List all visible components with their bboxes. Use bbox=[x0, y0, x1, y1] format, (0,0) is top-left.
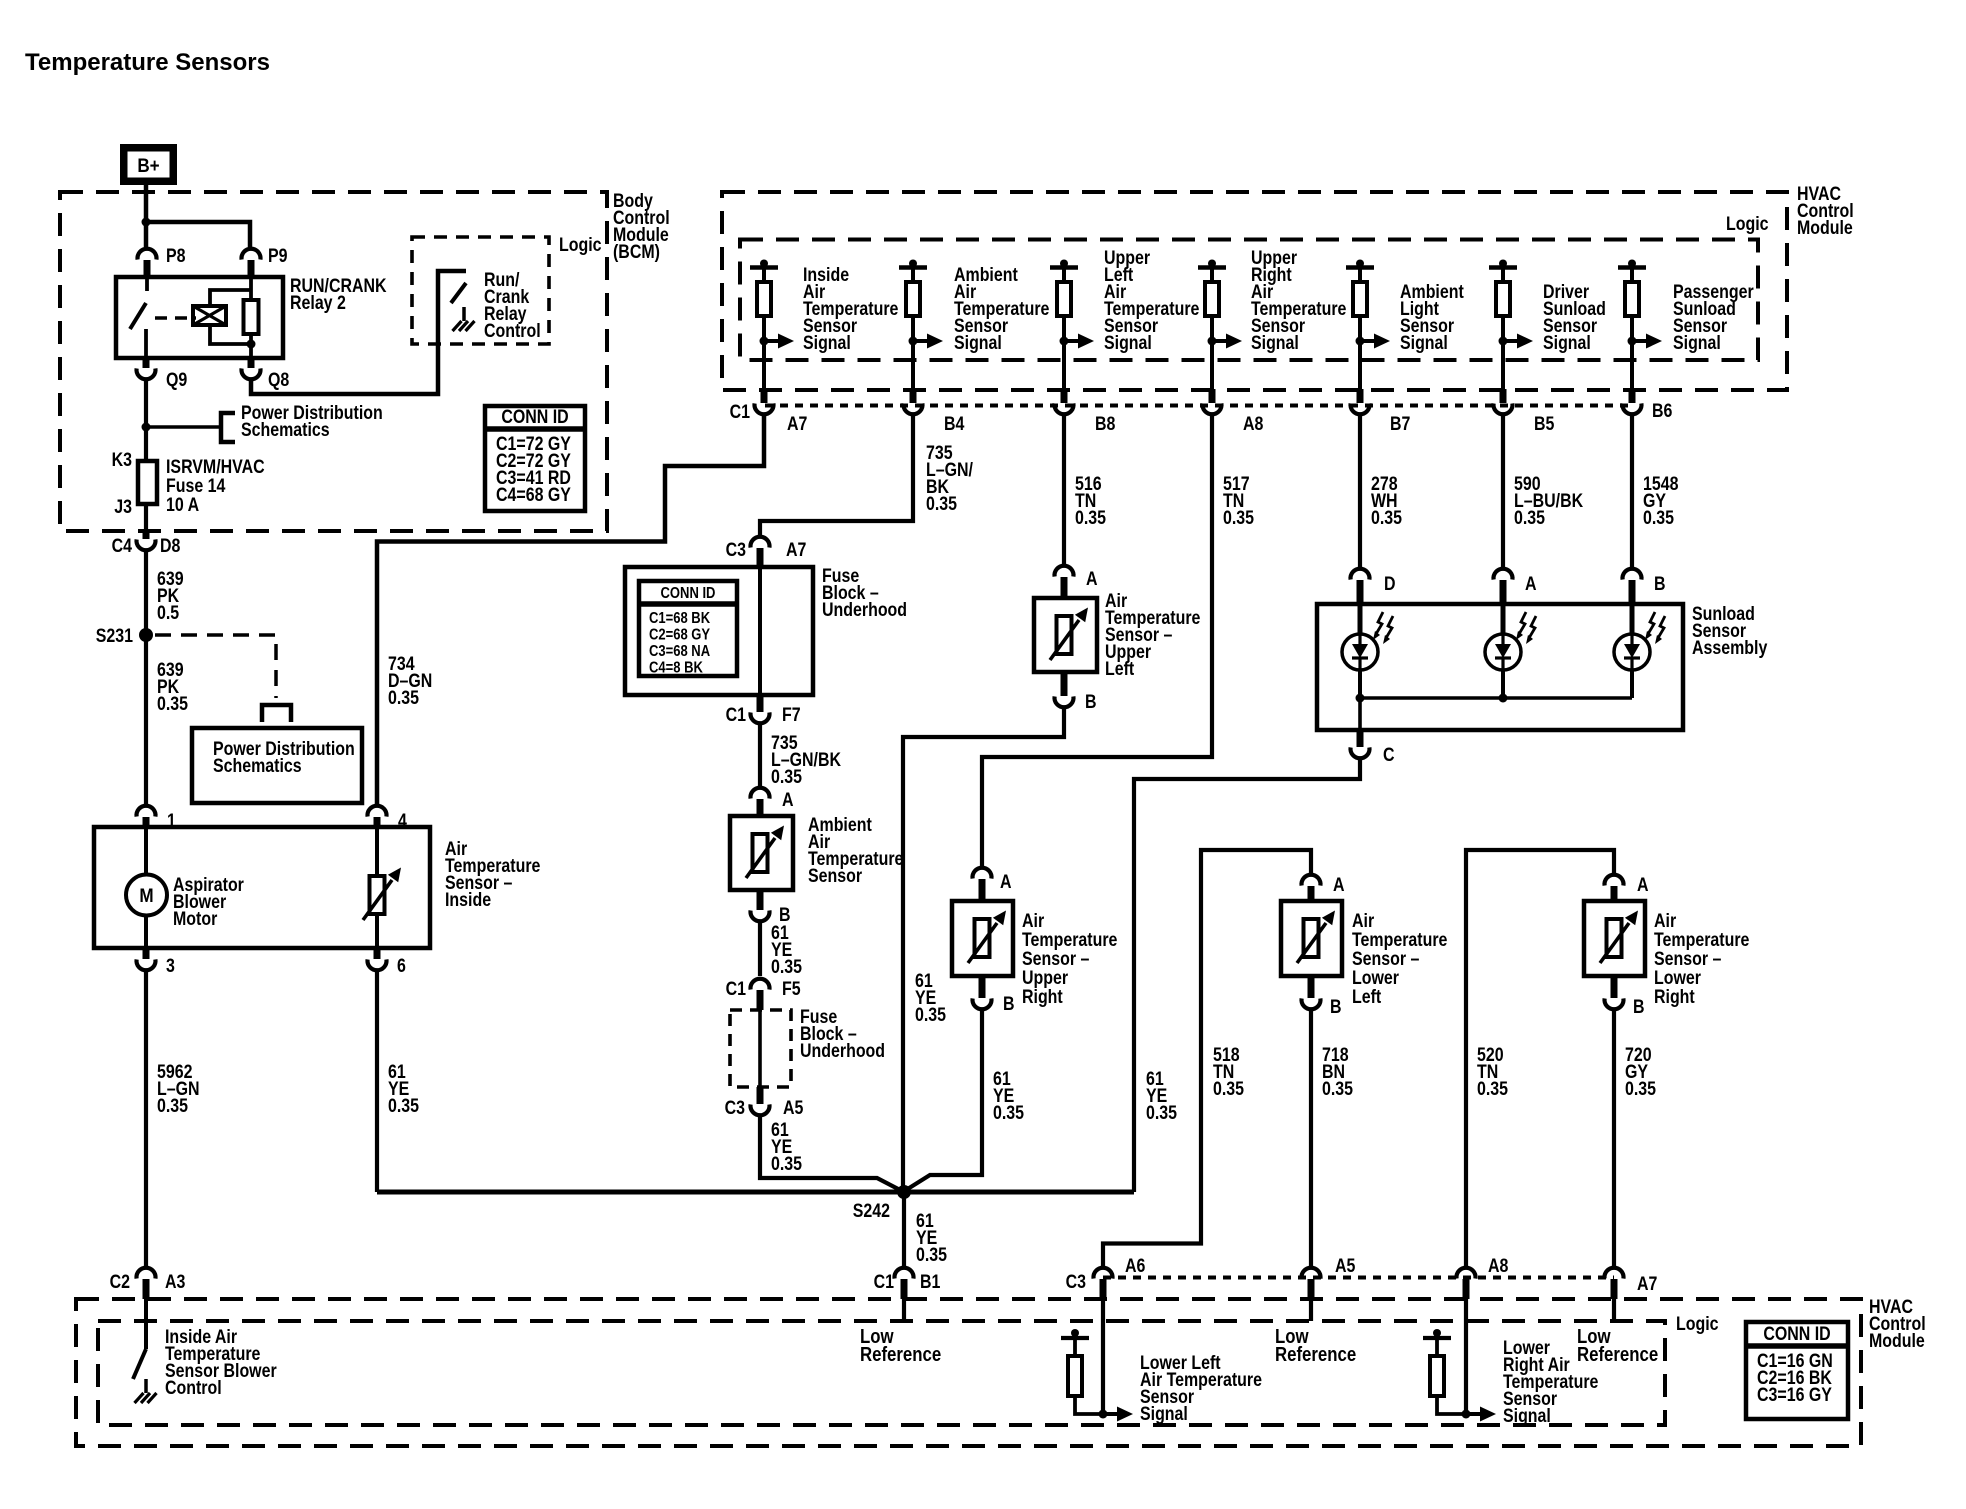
connector A8 (bottom) bbox=[1457, 1268, 1476, 1279]
svg-text:B4: B4 bbox=[944, 413, 965, 435]
connector pin A8 bbox=[1209, 389, 1216, 403]
svg-text:Logic: Logic bbox=[1676, 1313, 1719, 1335]
air temperature sensor upper right box bbox=[952, 901, 1013, 976]
thermistor ambient air temperature sensor bbox=[753, 834, 768, 872]
svg-text:Temperature Sensors: Temperature Sensors bbox=[25, 49, 270, 76]
wire B5 down bbox=[1501, 415, 1505, 568]
air temperature sensor lower left box bbox=[1281, 901, 1342, 976]
HVAC Control Module dashed box (top) bbox=[722, 192, 1787, 390]
wire B1 into module bbox=[902, 1299, 906, 1321]
connector 4 bbox=[368, 806, 387, 817]
svg-text:A7: A7 bbox=[787, 413, 807, 435]
svg-text:Left: Left bbox=[1352, 986, 1381, 1008]
svg-text:Left: Left bbox=[1105, 658, 1134, 680]
svg-text:K3: K3 bbox=[112, 449, 133, 471]
svg-text:C4=8 BK: C4=8 BK bbox=[649, 660, 703, 677]
svg-text:0.35: 0.35 bbox=[1643, 507, 1674, 529]
svg-text:(BCM): (BCM) bbox=[613, 241, 660, 263]
wire through fuse block bbox=[758, 567, 762, 695]
svg-text:0.35: 0.35 bbox=[916, 1244, 947, 1266]
connector dotted line (bottom) bbox=[1103, 1276, 1614, 1280]
wire 3 down to C2/A3 bbox=[144, 971, 148, 1268]
connector A (ambient) bbox=[751, 788, 770, 799]
svg-text:Reference: Reference bbox=[1275, 1343, 1356, 1366]
connector A (sunload) bbox=[1494, 569, 1513, 580]
connector B (upper right) bbox=[979, 976, 986, 998]
node sunload common 1 bbox=[1356, 694, 1365, 703]
connector Q8 bbox=[248, 358, 255, 368]
connector P9 bbox=[242, 249, 261, 260]
svg-text:S231: S231 bbox=[96, 625, 133, 647]
svg-text:A6: A6 bbox=[1125, 1255, 1146, 1277]
svg-text:A: A bbox=[782, 789, 794, 811]
svg-text:0.35: 0.35 bbox=[926, 493, 957, 515]
power distribution schematics box bbox=[192, 728, 362, 803]
wire B upper left to S242 bbox=[903, 708, 1064, 1193]
svg-text:D: D bbox=[1384, 573, 1396, 595]
svg-text:B: B bbox=[1085, 691, 1097, 713]
connector C2 A3 bbox=[137, 1268, 156, 1279]
svg-text:A3: A3 bbox=[165, 1271, 186, 1293]
svg-text:0.35: 0.35 bbox=[1146, 1102, 1177, 1124]
svg-text:Inside: Inside bbox=[445, 889, 491, 911]
svg-text:Schematics: Schematics bbox=[213, 755, 302, 777]
HVAC Logic dashed box (bottom) bbox=[98, 1321, 1665, 1425]
svg-text:A8: A8 bbox=[1243, 413, 1264, 435]
svg-text:D8: D8 bbox=[160, 535, 181, 557]
wire through dashed fuse block bbox=[758, 1010, 762, 1087]
wire S242 bus bbox=[377, 1190, 1134, 1195]
svg-text:J3: J3 bbox=[114, 496, 132, 518]
battery feed B+ terminal bbox=[120, 144, 177, 185]
svg-text:0.35: 0.35 bbox=[1514, 507, 1545, 529]
svg-text:C1: C1 bbox=[730, 401, 751, 423]
switch inside air temperature sensor blower control bbox=[144, 1299, 148, 1349]
arrow ambient air temp signal bbox=[909, 337, 918, 346]
connector C4 D8 bbox=[143, 531, 150, 539]
svg-text:0.35: 0.35 bbox=[771, 956, 802, 978]
sense resistor passenger sunload signal bbox=[1628, 260, 1636, 268]
run/crank control switch blade bbox=[451, 283, 466, 303]
sense resistor ambient air temp signal bbox=[909, 260, 917, 268]
svg-text:F7: F7 bbox=[782, 704, 801, 726]
arrow driver sunload signal bbox=[1499, 337, 1508, 346]
arrow ambient light signal bbox=[1356, 337, 1365, 346]
connector 3 bbox=[143, 948, 150, 959]
svg-text:A5: A5 bbox=[1335, 1255, 1356, 1277]
svg-text:0.35: 0.35 bbox=[388, 687, 419, 709]
connector Q9 bbox=[143, 358, 150, 368]
fuse block underhood dashed box bbox=[730, 1010, 791, 1087]
svg-text:P9: P9 bbox=[268, 245, 288, 267]
svg-text:0.35: 0.35 bbox=[1223, 507, 1254, 529]
wire coil top to P9 leg bbox=[210, 290, 251, 306]
svg-text:Reference: Reference bbox=[860, 1343, 941, 1366]
svg-text:0.35: 0.35 bbox=[157, 1095, 188, 1117]
wire Q9 down bbox=[144, 381, 148, 462]
connector A7 (bottom) bbox=[1605, 1268, 1624, 1279]
svg-text:A: A bbox=[1525, 573, 1537, 595]
svg-text:F5: F5 bbox=[782, 978, 801, 1000]
svg-text:Motor: Motor bbox=[173, 908, 217, 930]
connector P8 bbox=[138, 249, 157, 260]
connector B (ambient) bbox=[757, 890, 764, 910]
svg-text:B5: B5 bbox=[1534, 413, 1555, 435]
pullup resistor lower right signal bbox=[1433, 1329, 1441, 1337]
arrow passenger sunload signal bbox=[1628, 337, 1637, 346]
CONN ID table fuse block bbox=[639, 581, 737, 676]
svg-text:Sensor: Sensor bbox=[808, 865, 862, 887]
connector 6 bbox=[374, 948, 381, 959]
svg-text:0.35: 0.35 bbox=[915, 1004, 946, 1026]
svg-text:B+: B+ bbox=[137, 155, 159, 176]
svg-text:B: B bbox=[1633, 996, 1645, 1018]
svg-text:B1: B1 bbox=[920, 1271, 941, 1293]
svg-text:C3=16 GY: C3=16 GY bbox=[1757, 1384, 1832, 1406]
connector C (sunload) bbox=[1357, 730, 1364, 747]
svg-text:0.35: 0.35 bbox=[1625, 1078, 1656, 1100]
svg-text:A7: A7 bbox=[1637, 1273, 1657, 1295]
wire B6 down bbox=[1630, 415, 1634, 568]
wire A5 into module bbox=[1309, 1299, 1313, 1321]
connector pin B5 bbox=[1500, 389, 1507, 403]
sunload sensor assembly box bbox=[1317, 604, 1683, 730]
svg-text:A5: A5 bbox=[783, 1097, 804, 1119]
splice S231 bbox=[139, 628, 153, 642]
svg-text:C1: C1 bbox=[874, 1271, 895, 1293]
arrow upper right air temp signal bbox=[1208, 337, 1217, 346]
svg-text:Schematics: Schematics bbox=[241, 419, 330, 441]
connector C1 F7 bbox=[757, 695, 764, 712]
wire B7 down bbox=[1358, 415, 1362, 568]
connector C3 A7 (fuse block) bbox=[751, 537, 770, 548]
motor M1 aspirator blower motor bbox=[144, 827, 148, 875]
photodiode passenger sunload sensor bbox=[1630, 604, 1635, 634]
photodiode ambient light sensor bbox=[1358, 604, 1363, 634]
wire C3A5 to S242 bbox=[760, 1116, 902, 1192]
svg-text:B6: B6 bbox=[1652, 400, 1673, 422]
svg-text:Reference: Reference bbox=[1577, 1343, 1658, 1366]
air temperature sensor lower right box bbox=[1584, 901, 1645, 976]
svg-text:0.35: 0.35 bbox=[157, 693, 188, 715]
wire A6 into module bbox=[1101, 1299, 1105, 1414]
air temperature sensor upper left box bbox=[1034, 598, 1097, 672]
wire A7 into module bbox=[1612, 1299, 1616, 1321]
connector pin B4 bbox=[910, 389, 917, 403]
svg-text:A: A bbox=[1000, 871, 1012, 893]
svg-text:Control: Control bbox=[165, 1377, 222, 1399]
connector B (upper left) bbox=[1061, 672, 1068, 696]
svg-text:Q8: Q8 bbox=[268, 369, 289, 391]
thermistor inside air temperature sensor bbox=[375, 827, 379, 876]
HVAC Control Module dashed box (bottom) bbox=[76, 1299, 1861, 1446]
fuse block underhood box bbox=[625, 567, 813, 695]
sense resistor driver sunload signal bbox=[1499, 260, 1507, 268]
connector 1 bbox=[137, 806, 156, 817]
wire to power distribution bracket bbox=[146, 425, 221, 429]
wire B lower right to A7 bbox=[1612, 1010, 1616, 1267]
svg-text:A: A bbox=[1333, 874, 1345, 896]
svg-text:C1=68 BK: C1=68 BK bbox=[649, 610, 711, 627]
svg-text:Control: Control bbox=[484, 320, 541, 342]
relay K? RUN/CRANK Relay 2 box bbox=[116, 277, 283, 358]
svg-text:C3: C3 bbox=[1066, 1271, 1087, 1293]
fuse K3 ISRVM/HVAC Fuse 14 bbox=[138, 461, 157, 504]
wire sunload common down bbox=[1358, 698, 1362, 730]
relay actuation dashed link bbox=[155, 316, 196, 320]
arrow lower right signal bbox=[1462, 1410, 1471, 1419]
photodiode driver sunload sensor bbox=[1501, 604, 1506, 634]
connector pin B8 bbox=[1061, 389, 1068, 403]
svg-text:C3: C3 bbox=[726, 539, 747, 561]
connector pin B6 bbox=[1629, 389, 1636, 403]
connector A (lower right) bbox=[1605, 875, 1624, 886]
arrow inside air temp signal bbox=[760, 337, 769, 346]
wire coil bottom bbox=[210, 325, 251, 344]
wire 6 down to S242 bbox=[375, 971, 379, 1193]
arrow upper left air temp signal bbox=[1060, 337, 1069, 346]
svg-text:Signal: Signal bbox=[1673, 332, 1721, 354]
svg-text:B: B bbox=[1654, 573, 1666, 595]
arrow lower left signal bbox=[1099, 1410, 1108, 1419]
svg-text:C4=68 GY: C4=68 GY bbox=[496, 484, 571, 506]
svg-text:0.5: 0.5 bbox=[157, 602, 179, 624]
relay coil box bbox=[193, 306, 226, 325]
svg-text:Logic: Logic bbox=[1726, 213, 1769, 235]
thermistor upper left bbox=[1057, 616, 1072, 654]
svg-text:Signal: Signal bbox=[1543, 332, 1591, 354]
svg-text:B: B bbox=[1003, 993, 1015, 1015]
svg-text:C: C bbox=[1383, 744, 1395, 766]
dashed branch from S231 bbox=[155, 635, 276, 698]
sunload common wire bbox=[1360, 696, 1632, 700]
svg-text:C4: C4 bbox=[112, 535, 133, 557]
wire A7 to inside sensor pin 4 bbox=[377, 415, 764, 805]
svg-text:Assembly: Assembly bbox=[1692, 637, 1768, 659]
off-page bracket power distribution bbox=[221, 413, 235, 442]
svg-text:3: 3 bbox=[166, 955, 175, 977]
aspirator blower motor box bbox=[94, 827, 430, 948]
connector A5 (bottom) bbox=[1301, 1268, 1320, 1279]
svg-text:CONN ID: CONN ID bbox=[661, 585, 716, 602]
wire B lower left to A5 bbox=[1309, 1010, 1313, 1267]
connector B (sunload) bbox=[1622, 569, 1641, 580]
wire A8 to upper right sensor bbox=[982, 415, 1212, 867]
svg-text:Q9: Q9 bbox=[166, 369, 187, 391]
thermistor lower left bbox=[1304, 919, 1319, 957]
svg-text:0.35: 0.35 bbox=[1075, 507, 1106, 529]
BCM Logic dashed box bbox=[412, 237, 549, 344]
connector B (lower right) bbox=[1611, 976, 1618, 998]
relay switch upper contact bbox=[145, 277, 149, 291]
node coil/resistor junction bbox=[247, 340, 256, 349]
connector A (upper right) bbox=[973, 868, 992, 879]
svg-text:CONN ID: CONN ID bbox=[1763, 1323, 1830, 1345]
svg-text:A8: A8 bbox=[1488, 1255, 1509, 1277]
relay resistor bbox=[244, 300, 259, 334]
wire A8 into module bbox=[1464, 1299, 1468, 1414]
svg-text:A: A bbox=[1086, 568, 1098, 590]
connector C1 F5 bbox=[751, 979, 770, 990]
svg-text:0.35: 0.35 bbox=[993, 1102, 1024, 1124]
svg-text:S242: S242 bbox=[853, 1200, 890, 1222]
thermistor upper right bbox=[975, 919, 990, 957]
svg-text:P8: P8 bbox=[166, 245, 186, 267]
svg-text:0.35: 0.35 bbox=[771, 766, 802, 788]
wire C4 down bbox=[144, 551, 148, 806]
sense resistor ambient light signal bbox=[1356, 260, 1364, 268]
svg-text:Underhood: Underhood bbox=[822, 599, 907, 621]
svg-text:B: B bbox=[1330, 996, 1342, 1018]
connector dotted line (top) bbox=[765, 404, 1632, 408]
sense resistor upper left air temp signal bbox=[1060, 260, 1068, 268]
svg-text:10 A: 10 A bbox=[166, 494, 199, 516]
wire B4 to fuse block bbox=[760, 415, 913, 536]
svg-text:C1: C1 bbox=[726, 978, 747, 1000]
svg-text:Right: Right bbox=[1022, 986, 1063, 1008]
svg-text:Module: Module bbox=[1869, 1330, 1925, 1352]
connector pin A7 bbox=[761, 389, 768, 403]
svg-text:Signal: Signal bbox=[1503, 1405, 1551, 1427]
svg-text:Signal: Signal bbox=[1104, 332, 1152, 354]
pullup resistor lower left signal bbox=[1071, 1329, 1079, 1337]
svg-text:C1: C1 bbox=[726, 704, 747, 726]
HVAC Logic dashed box (top) bbox=[740, 240, 1758, 361]
svg-text:Signal: Signal bbox=[954, 332, 1002, 354]
connector A (upper left) bbox=[1055, 566, 1074, 577]
wire A6 feed to lower left sensor bbox=[1103, 850, 1311, 1267]
svg-text:Underhood: Underhood bbox=[800, 1040, 885, 1062]
ambient air temperature sensor box bbox=[730, 816, 793, 890]
svg-text:0.35: 0.35 bbox=[1213, 1078, 1244, 1100]
wire S242 down to B1 bbox=[902, 1192, 906, 1267]
off-page staple bbox=[262, 705, 291, 722]
svg-text:CONN ID: CONN ID bbox=[501, 406, 568, 428]
svg-text:Signal: Signal bbox=[1251, 332, 1299, 354]
svg-text:C3: C3 bbox=[725, 1097, 746, 1119]
wire B8 down bbox=[1062, 415, 1066, 565]
svg-text:C2=68 GY: C2=68 GY bbox=[649, 627, 711, 644]
node power distribution tap bbox=[142, 423, 151, 432]
connector A (lower left) bbox=[1301, 875, 1320, 886]
connector D (sunload) bbox=[1351, 569, 1370, 580]
svg-text:M: M bbox=[139, 885, 153, 906]
svg-text:0.35: 0.35 bbox=[771, 1153, 802, 1175]
sense resistor upper right air temp signal bbox=[1208, 260, 1216, 268]
svg-text:Signal: Signal bbox=[1400, 332, 1448, 354]
ground blower control bbox=[144, 1379, 148, 1393]
thermistor lower right bbox=[1607, 919, 1622, 957]
svg-text:Right: Right bbox=[1654, 986, 1695, 1008]
svg-text:B7: B7 bbox=[1390, 413, 1410, 435]
svg-text:A: A bbox=[1637, 874, 1649, 896]
wire A8 feed to lower right sensor bbox=[1466, 850, 1614, 1267]
connector C1 B1 bbox=[895, 1268, 914, 1279]
wire resistor to Q8 bbox=[249, 334, 253, 358]
svg-text:0.35: 0.35 bbox=[388, 1095, 419, 1117]
svg-text:0.35: 0.35 bbox=[1371, 507, 1402, 529]
svg-text:Logic: Logic bbox=[559, 234, 602, 256]
node branch to P9 bbox=[142, 218, 151, 227]
svg-text:6: 6 bbox=[397, 955, 406, 977]
CONN ID table HVAC bottom bbox=[1746, 1322, 1848, 1419]
svg-text:C2: C2 bbox=[110, 1271, 131, 1293]
svg-text:Signal: Signal bbox=[803, 332, 851, 354]
connector pin B7 bbox=[1357, 389, 1364, 403]
wire fuse to C4 bbox=[144, 504, 148, 531]
splice S242 bbox=[897, 1185, 911, 1199]
wire P9 into relay bbox=[249, 277, 253, 301]
svg-text:Signal: Signal bbox=[1140, 1403, 1188, 1425]
svg-text:Module: Module bbox=[1797, 217, 1853, 239]
relay switch blade bbox=[130, 303, 146, 329]
svg-text:B8: B8 bbox=[1095, 413, 1116, 435]
svg-text:0.35: 0.35 bbox=[1322, 1078, 1353, 1100]
sense resistor inside air temp signal bbox=[760, 260, 768, 268]
svg-text:C3=68 NA: C3=68 NA bbox=[649, 643, 710, 660]
wire B upper right to S242 bbox=[906, 1010, 982, 1191]
wire sunload C to S242 bbox=[1134, 759, 1360, 1193]
CONN ID table BCM bbox=[485, 406, 585, 511]
ground run/crank relay control bbox=[462, 307, 466, 321]
connector C3 A5 bbox=[757, 1087, 764, 1104]
connector B (lower left) bbox=[1308, 976, 1315, 998]
wire branch to P9 bbox=[146, 222, 250, 247]
Body Control Module (BCM) dashed box bbox=[60, 192, 607, 531]
connector C3 A6 bbox=[1094, 1268, 1113, 1279]
svg-text:A7: A7 bbox=[786, 539, 806, 561]
node sunload common 2 bbox=[1499, 694, 1508, 703]
wire B+ down to P8 bbox=[144, 183, 149, 247]
wire B to C1 F5 bbox=[758, 922, 762, 977]
relay switch lower contact bbox=[144, 329, 148, 358]
svg-text:Relay 2: Relay 2 bbox=[290, 292, 346, 314]
wire F7 to ambient sensor bbox=[758, 724, 762, 787]
wire Q8 to run/crank relay control bbox=[251, 271, 466, 394]
svg-text:0.35: 0.35 bbox=[1477, 1078, 1508, 1100]
